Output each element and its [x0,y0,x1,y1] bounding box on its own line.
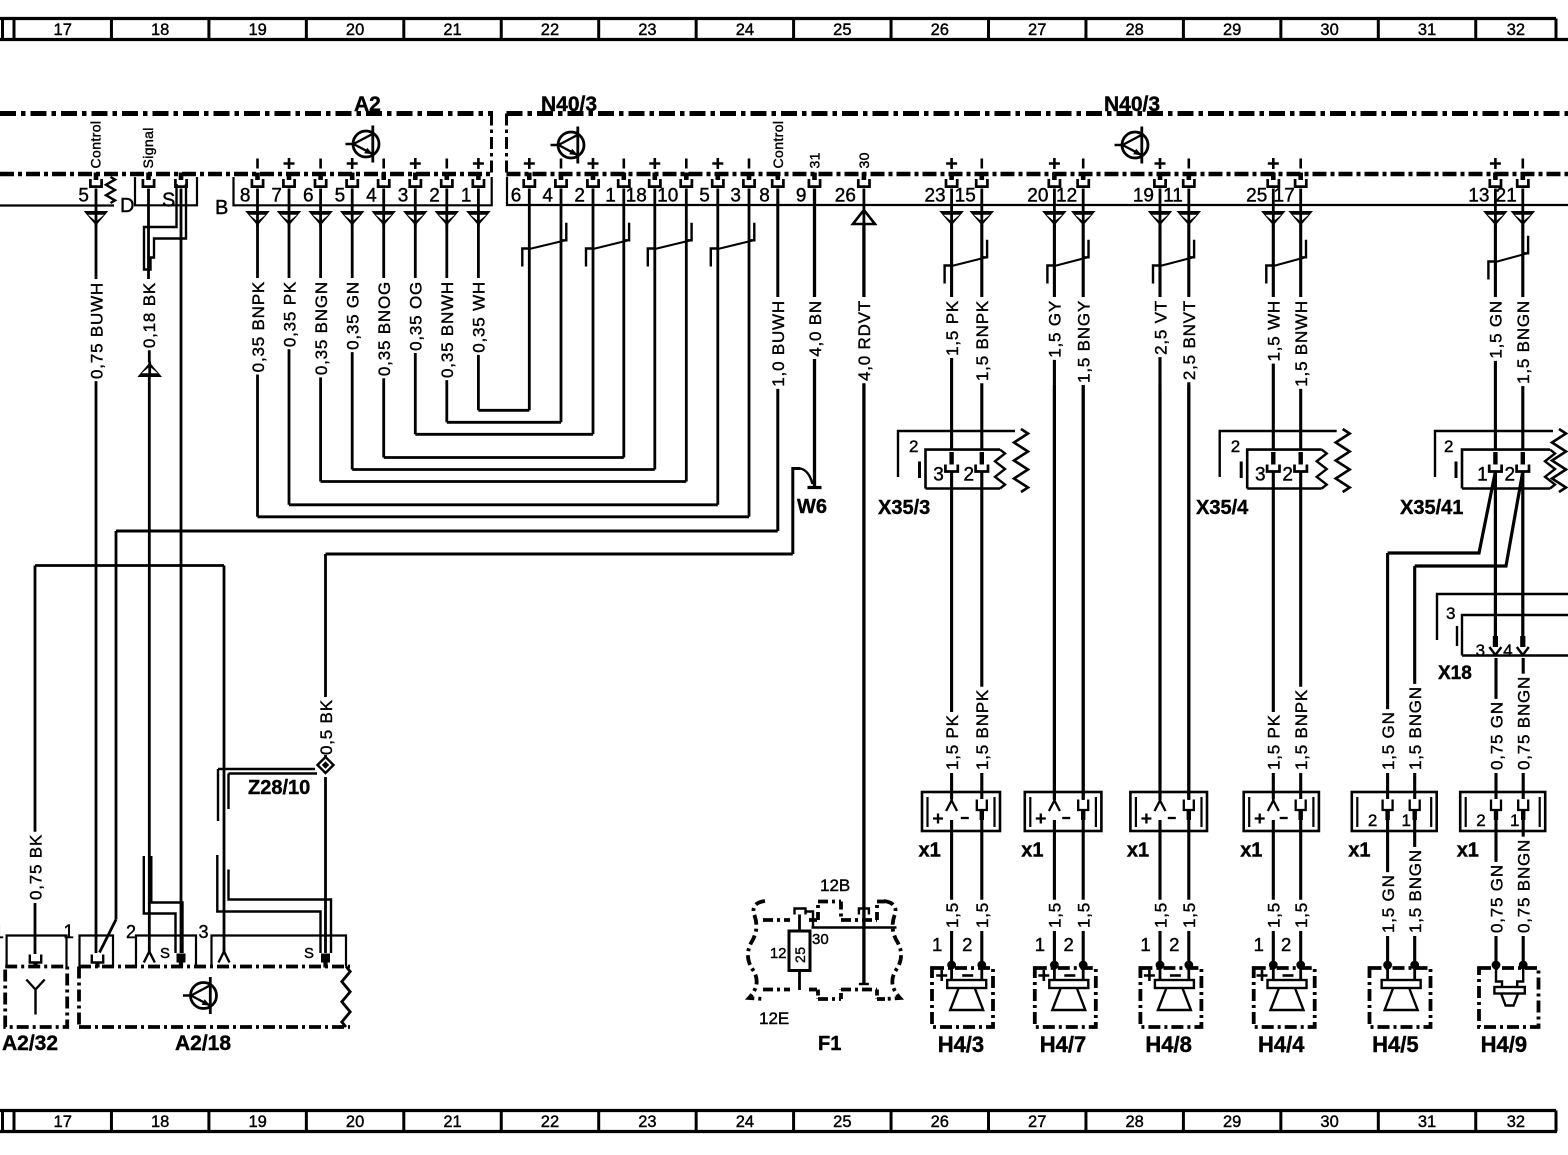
wire 1,5 BNGY [1075,225,1094,801]
wire 1,5 BNPK into H4/4 x1 [1299,472,1302,687]
svg-text:2: 2 [1231,437,1240,456]
svg-text:12B: 12B [820,876,850,895]
polarity mark [319,159,322,169]
pin [143,173,154,187]
svg-text:Control: Control [88,121,104,169]
shield loop at A2 pin S [144,184,186,270]
svg-text:0,75 BNGN: 0,75 BNGN [1515,839,1534,933]
svg-text:30: 30 [1320,21,1338,39]
pin 3 [743,173,754,187]
pin 10 [681,173,692,187]
polarity mark [524,158,535,169]
polarity mark [622,159,625,169]
wire N40/3 pin 10 [685,189,688,482]
svg-text:2: 2 [1169,934,1179,955]
wire to A2/18 pin 3 [223,566,226,954]
junction dots [1269,961,1278,970]
svg-text:9: 9 [796,186,807,207]
svg-text:17: 17 [54,1113,72,1131]
svg-text:29: 29 [1223,1113,1241,1131]
svg-text:1,5: 1,5 [1265,902,1284,928]
svg-text:1,5: 1,5 [1075,902,1094,928]
wire 21 to X18 [1521,472,1524,639]
svg-text:30: 30 [856,152,872,168]
wire 2,5 VT [1151,225,1170,801]
bracket line under N40/3 [507,177,1568,205]
switch contact between pins 19 and 11 [1153,240,1194,284]
svg-text:7: 7 [271,186,282,207]
svg-text:1,5 WH: 1,5 WH [1265,300,1284,361]
pin 1 of x1 [1518,800,1528,811]
svg-text:N40/3: N40/3 [541,93,597,116]
connector sleeve Z28/10 (diamond) [318,757,334,773]
svg-text:19: 19 [1133,186,1154,207]
svg-text:1,5 GN: 1,5 GN [1379,874,1398,933]
component box A2/32 (antenna) [5,967,67,1028]
svg-text:D: D [120,195,134,217]
polarity + [1049,158,1060,169]
junction dots [1383,961,1392,970]
pin 18 [649,173,660,187]
component box H4/4 (speaker) [1254,968,1315,1027]
polarity mark [712,158,723,169]
pin 7 [283,173,294,187]
svg-text:8: 8 [759,186,770,207]
svg-text:0,35 OG: 0,35 OG [407,281,426,351]
polarity mark [588,158,599,169]
pin 4 [378,173,389,187]
wire 2,5 BNVT [1180,225,1199,801]
speaker symbol H4/9 (tweeter) [1496,965,1502,987]
pin 4 [555,173,566,187]
wire below x1 (1,5) [1187,820,1190,900]
polarity mark [560,159,563,169]
top coordinate ruler 17-32 [0,19,1568,40]
pin 6 [315,173,326,187]
wire 1,5 PK into H4/4 x1 [1272,472,1275,712]
wire 1,5 PK into H4/3 x1 [950,472,953,712]
svg-text:1,5 PK: 1,5 PK [1265,714,1284,770]
wire 0,5 BK continues to A2/18 S [324,777,327,953]
wire U 0,35 BNGN [321,480,687,483]
wire below x1 (0,75 GN) [1494,820,1497,862]
S pin of A2/18 section 3 [321,954,330,963]
pin [175,173,186,187]
switch contact between N40/3 pins 6 and 4 [522,223,566,267]
svg-text:S: S [162,190,175,212]
pin 3 of X35/3 [949,452,953,465]
svg-text:2: 2 [1476,811,1485,830]
svg-text:H4/9: H4/9 [1481,1032,1527,1057]
wire 1,5 BNGN [1514,225,1533,450]
wire below x1 (1,5) [1082,820,1085,900]
switch contact between pins 25 and 17 [1266,240,1306,284]
fuse bottom stub [798,971,801,991]
svg-text:N40/3: N40/3 [1104,93,1160,116]
polarity - [1299,159,1302,169]
svg-text:Z28/10: Z28/10 [248,777,310,799]
component box A2 (radio) [0,114,493,175]
svg-text:25: 25 [833,21,851,39]
svg-text:x1: x1 [1457,840,1479,862]
svg-text:S: S [160,945,170,962]
svg-text:1: 1 [0,922,4,943]
connector X18 [1437,594,1568,656]
pin - of x1 [1296,800,1306,811]
svg-text:x1: x1 [1127,840,1149,862]
svg-text:5: 5 [335,186,346,207]
component box H4/5 (speaker) [1370,968,1431,1027]
pin 2 of X35/41 [1521,452,1525,465]
wire below x1 (1,5 GN) [1386,820,1389,872]
wire 0,75 GN into H4/9 x1 [1494,658,1497,699]
bracket D [0,204,114,206]
wires into H4/7 x1 [1053,385,1056,799]
component box H4/9 (speaker) [1479,968,1539,1027]
wire ground bus y554 [326,553,793,556]
svg-text:0,35 PK: 0,35 PK [280,281,299,347]
W6 attachment curve [801,469,813,485]
svg-text:2: 2 [429,186,440,207]
svg-text:0,75 BUWH: 0,75 BUWH [87,282,106,379]
svg-text:31: 31 [1418,21,1436,39]
svg-text:1,5 BNPK: 1,5 BNPK [973,300,992,381]
svg-text:A2/18: A2/18 [175,1032,231,1055]
amplifier symbol inside N40/3 left [551,127,585,164]
wire 1,5 BNWH [1292,225,1311,450]
shield elbow at A2/18 section 2 [144,856,176,953]
svg-text:23: 23 [638,21,656,39]
pin 2 of X35/4 [1298,452,1302,465]
wire shield S down to A2/18 [180,189,183,954]
S pin of A2/18 section 2 [177,954,186,963]
speaker symbol H4/3 [950,965,953,980]
connector x1 of H4/3 [922,792,1000,831]
wire N40/3 pin 18 [653,189,656,470]
svg-text:2: 2 [909,437,918,456]
svg-text:21: 21 [443,1113,461,1131]
svg-text:4,0 RDVT: 4,0 RDVT [855,300,874,381]
wire 1,5 WH [1265,225,1284,450]
svg-text:2: 2 [1282,465,1293,486]
pin 25 [1268,173,1279,187]
svg-text:H4/3: H4/3 [938,1032,984,1057]
svg-text:x1: x1 [1348,840,1370,862]
wire U 0,35 WH [478,409,529,412]
wire 0,35 BNPK [249,225,268,517]
wire antenna ground y565.5 [35,564,224,567]
svg-text:26: 26 [835,186,856,207]
svg-text:1: 1 [1254,934,1264,955]
wire below x1 (1,5) [1158,820,1161,900]
wire below x1 (1,5) [1272,820,1275,900]
pin 12 [1078,173,1089,187]
switch contact between pins 23 and 15 [945,240,988,284]
component box A2/18 [79,965,350,969]
connector x1 of H4/7 [1025,792,1102,831]
svg-text:22: 22 [541,21,559,39]
polarity - [980,159,983,169]
svg-text:22: 22 [541,1113,559,1131]
svg-text:0,75 GN: 0,75 GN [1487,701,1506,770]
svg-text:2: 2 [126,922,136,942]
wire N40/3 pin 5 [716,189,719,505]
wire 1,5 GN [1487,225,1506,450]
pin + of x1 [1268,801,1279,812]
svg-text:3: 3 [398,186,409,207]
pin 19 [1154,173,1165,187]
svg-text:23: 23 [924,186,945,207]
svg-text:18: 18 [151,21,169,39]
svg-text:30: 30 [1320,1113,1338,1131]
terminal square on 12B wire [859,909,869,915]
svg-text:2: 2 [1368,811,1377,830]
svg-text:2: 2 [962,934,972,955]
svg-text:25: 25 [833,1113,851,1131]
bracket S of A2 [135,177,197,205]
pin 8 [252,173,263,187]
svg-text:X35/41: X35/41 [1400,497,1463,519]
pin 26 [858,173,869,187]
svg-text:24: 24 [736,21,754,39]
wire 0,35 PK [280,225,299,505]
svg-text:12: 12 [1056,186,1077,207]
svg-text:1: 1 [605,186,616,207]
svg-text:2,5 BNVT: 2,5 BNVT [1180,300,1199,380]
wire 0,75 BK to antenna A2/32 [34,566,37,832]
fuse F1 element [795,909,806,915]
svg-text:31: 31 [1418,1113,1436,1131]
switch contact between N40/3 pins 2 and 1 [586,223,629,267]
fuse box F1 outline [748,901,901,999]
wire below x1 (1,5) [980,820,983,900]
pin 5 [347,173,358,187]
svg-text:3: 3 [199,922,209,942]
svg-text:4: 4 [1503,641,1512,660]
switch contact between pins 20 and 12 [1047,240,1088,284]
shield elbow upper from Z28/10 [218,769,315,821]
svg-text:12: 12 [770,945,787,962]
svg-text:0,35 WH: 0,35 WH [470,281,489,353]
pin 3 of X35/4 [1271,452,1275,465]
svg-text:0,75 BK: 0,75 BK [26,834,45,900]
svg-text:1: 1 [1401,811,1410,830]
svg-text:1,5: 1,5 [973,902,992,928]
pin 2 of X35/3 [980,452,984,465]
svg-text:0,35 BNPK: 0,35 BNPK [249,281,268,372]
svg-text:10: 10 [657,186,678,207]
wire below x1 (0,75 BNGN) [1522,820,1525,837]
svg-text:H4/5: H4/5 [1372,1032,1418,1057]
pin 1 of X35/41 [1493,452,1497,465]
svg-text:29: 29 [1223,21,1241,39]
svg-text:1,5 GN: 1,5 GN [1487,300,1506,359]
svg-text:1,5: 1,5 [1151,902,1170,928]
svg-text:6: 6 [511,186,522,207]
svg-text:1,5 BNGN: 1,5 BNGN [1406,686,1425,770]
pin 6 [524,173,535,187]
svg-text:13: 13 [1468,186,1489,207]
wire 1,5 PK [943,225,962,450]
svg-text:1,5 BNPK: 1,5 BNPK [973,689,992,770]
svg-text:1,5 BNGN: 1,5 BNGN [1514,300,1533,384]
svg-text:1,5 BNGY: 1,5 BNGY [1075,300,1094,383]
svg-text:1,0 BUWH: 1,0 BUWH [769,300,788,387]
wire 0,35 BNGN [312,225,331,482]
wire 1,5 BNGN into H4/5 x1 [1413,566,1416,684]
polarity - [1188,159,1191,169]
wire 1,5 GN into H4/5 x1 [1386,553,1389,709]
diagonal into A2/18 pin 1 [100,920,117,953]
junction dots [947,961,956,970]
wire 0,5 BK [324,554,327,697]
svg-text:2: 2 [1064,934,1074,955]
speaker symbol H4/5 [1386,965,1389,980]
connector x1 of H4/8 [1130,792,1207,831]
pin 2 [587,173,598,187]
pin 17 [1295,173,1306,187]
svg-text:X35/3: X35/3 [878,497,930,519]
pin 20 [1049,173,1060,187]
svg-text:17: 17 [54,21,72,39]
svg-text:2: 2 [1281,934,1291,955]
bottom coordinate ruler 17-32 [0,1111,1557,1132]
wire U 0,35 PK [289,503,718,506]
wire 13 to X18 [1494,472,1497,639]
pin 2 of x1 [1383,800,1393,811]
svg-text:0,75 GN: 0,75 GN [1487,864,1506,933]
antenna symbol [26,980,44,1015]
speaker symbol H4/4 [1272,965,1275,980]
svg-text:2: 2 [574,186,585,207]
pin + of x1 [1049,801,1060,812]
polarity - [1082,159,1085,169]
splice wire X35/41 pin1 to H4/5 [1388,472,1496,554]
wire 0,18 BK (Signal) [147,189,150,280]
svg-text:3: 3 [1476,641,1485,660]
pin bracket of A2/32 [7,936,67,967]
polarity + [1268,158,1279,169]
wire below x1 (1,5) [950,820,953,900]
svg-text:x1: x1 [919,840,941,862]
connector x1 of H4/5 [1352,792,1437,831]
svg-text:X18: X18 [1438,663,1472,684]
wire control bus y531 [116,530,778,533]
wire N40/3 pin 3 [748,189,751,517]
svg-text:0,35 GN: 0,35 GN [344,281,363,350]
wire N40/3 pin 1 [622,189,625,458]
svg-text:5: 5 [699,186,710,207]
svg-text:28: 28 [1125,1113,1143,1131]
svg-text:1: 1 [1477,465,1488,486]
wire 1,5 GY [1046,225,1065,801]
pin 2 of x1 [1491,800,1501,811]
ground terminal bar W6 [808,486,822,489]
svg-text:27: 27 [1028,1113,1046,1131]
wire N40/3 pin 2 [592,189,595,435]
svg-text:A2: A2 [354,93,381,116]
wire U 0,35 BNOG [384,456,624,459]
polarity mark [473,158,484,169]
svg-text:1,5: 1,5 [943,902,962,928]
svg-text:0,35 BNOG: 0,35 BNOG [375,281,394,376]
svg-text:23: 23 [638,1113,656,1131]
svg-text:1,5 GN: 1,5 GN [1379,711,1398,770]
svg-text:x1: x1 [1021,840,1043,862]
wire 1,0 BUWH drop to A2/18 [115,531,118,920]
zigzag edge of A2/18 [342,967,350,1028]
svg-text:1,5: 1,5 [1180,902,1199,928]
svg-text:1: 1 [461,186,472,207]
switch contact between pins 13 and 21 [1488,236,1528,280]
pin 15 [976,173,987,187]
svg-text:18: 18 [626,186,647,207]
svg-text:21: 21 [443,21,461,39]
svg-text:27: 27 [1028,21,1046,39]
svg-text:30: 30 [812,931,829,948]
svg-text:1,5 PK: 1,5 PK [943,714,962,770]
svg-text:6: 6 [303,186,314,207]
splice wire X35/41 pin2 to H4/5 [1415,472,1523,567]
svg-text:1: 1 [1140,934,1150,955]
polarity + [1155,158,1166,169]
svg-text:8: 8 [240,186,251,207]
connector X35/3 [898,429,1028,492]
pin [90,173,101,187]
polarity mark [410,158,421,169]
pin 3 of X18 [1493,636,1498,647]
wire 1,5 BNPK [973,225,992,450]
polarity mark [284,158,295,169]
wire 0,35 BNWH [438,225,457,423]
polarity mark [347,158,358,169]
polarity - [1522,159,1525,169]
wire below x1 (1,5) [1053,820,1056,900]
wire U 0,35 OG [415,433,593,436]
wire below x1 (1,5) [1299,820,1302,900]
svg-text:1: 1 [63,922,74,943]
pin 5 [712,173,723,187]
svg-text:1,5 PK: 1,5 PK [943,300,962,356]
arch pin of A2/18 section 2 [144,952,155,963]
svg-text:3: 3 [933,465,944,486]
svg-text:20: 20 [1027,186,1048,207]
amplifier symbol inside A2 [346,126,380,163]
pin 1 of A2/18 [92,955,103,963]
svg-text:28: 28 [1125,21,1143,39]
connector X35/41 [1435,429,1566,492]
wire N40/3 pin 6 [528,189,531,411]
svg-text:1,5 BNGN: 1,5 BNGN [1406,849,1425,933]
svg-text:19: 19 [248,1113,266,1131]
svg-text:24: 24 [736,1113,754,1131]
svg-text:19: 19 [248,21,266,39]
component box H4/8 (speaker) [1140,968,1201,1027]
svg-text:11: 11 [1163,186,1183,207]
switch contact between N40/3 pins 5 and 3 [711,223,755,267]
svg-text:H4/7: H4/7 [1040,1032,1086,1057]
svg-text:0,35 BNWH: 0,35 BNWH [438,281,457,378]
svg-text:0,18 BK: 0,18 BK [140,282,159,348]
pin + of x1 [1155,801,1166,812]
amplifier symbol inside A2/18 [183,977,217,1014]
svg-text:1: 1 [932,934,942,955]
svg-text:12E: 12E [759,1009,789,1028]
amplifier symbol inside N40/3 right [1115,127,1149,164]
svg-text:Signal: Signal [140,127,156,168]
svg-text:0,35 BNGN: 0,35 BNGN [312,281,331,375]
svg-text:25: 25 [792,946,808,963]
